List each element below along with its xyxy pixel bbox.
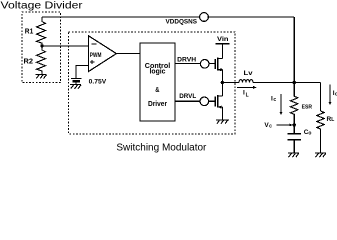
- battery V1 0.75V reference: [71, 78, 81, 84]
- svg-text:Vin: Vin: [217, 37, 229, 43]
- control logic and driver block U2: [140, 43, 175, 121]
- resistor RL: [317, 111, 324, 153]
- ground RL: [315, 153, 326, 157]
- svg-text:c: c: [273, 97, 276, 103]
- svg-text:Lv: Lv: [244, 70, 253, 77]
- wire DRVL to Q2 gate: [175, 100, 215, 102]
- svg-text:VDDQSNS: VDDQSNS: [166, 19, 198, 25]
- pin DRVH terminal: [200, 60, 209, 69]
- wire PWM plus input to reference: [76, 65, 89, 78]
- svg-text:R1: R1: [25, 29, 34, 36]
- op-amp U1 PWM comparator: [89, 36, 117, 72]
- label PWM comparator minus input: [91, 43, 96, 45]
- svg-text:logic: logic: [150, 68, 166, 75]
- ground reference V1: [70, 85, 81, 89]
- node output junction: [292, 81, 296, 85]
- node divider midpoint junction: [40, 44, 43, 47]
- svg-text:ESR: ESR: [302, 104, 312, 110]
- wire switch node to inductor: [222, 82, 239, 84]
- voltage divider enclosure box: [22, 12, 61, 83]
- current arrow IL: [237, 86, 257, 89]
- label Vc pointer arrow: [277, 124, 293, 127]
- svg-text:&: &: [155, 87, 159, 94]
- terminal VDDQSNS: [200, 13, 209, 22]
- svg-text:0.75V: 0.75V: [89, 78, 107, 85]
- svg-text:o: o: [308, 131, 311, 137]
- capacitor Co: [287, 125, 301, 153]
- wire VDDQSNS vertical drop to output node: [293, 17, 295, 83]
- ground R2: [36, 74, 47, 78]
- ground Q2 source: [216, 120, 229, 124]
- wire divider midpoint to PWM inverting input: [42, 45, 89, 47]
- switching modulator enclosure box: [69, 32, 236, 134]
- current arrow Io: [329, 85, 332, 106]
- svg-text:L: L: [331, 117, 334, 123]
- transistor Q2 low-side MOSFET: [215, 83, 222, 120]
- label PWM comparator plus input: [90, 60, 94, 64]
- current arrow Ic: [279, 94, 282, 115]
- wire inductor to output node rail: [253, 82, 321, 84]
- svg-text:PWM: PWM: [90, 53, 102, 59]
- svg-text:Switching Modulator: Switching Modulator: [116, 142, 207, 153]
- wire PWM output to control logic: [116, 53, 140, 55]
- wire output rail corner to RL: [320, 83, 322, 112]
- svg-text:Voltage Divider: Voltage Divider: [1, 1, 84, 12]
- wire DRVH to Q1 gate: [175, 63, 215, 65]
- node switch node junction: [221, 81, 224, 84]
- resistor R1: [37, 17, 46, 46]
- transistor Q1 high-side MOSFET: [215, 58, 222, 83]
- resistor R2: [37, 46, 46, 74]
- resistor ESR: [291, 83, 298, 125]
- svg-text:L: L: [246, 92, 249, 98]
- svg-text:R2: R2: [24, 59, 34, 66]
- ground Co: [288, 153, 299, 157]
- svg-text:Driver: Driver: [148, 101, 167, 108]
- wire VDDQSNS top rail: [42, 16, 294, 18]
- power Vin stub: [216, 44, 230, 59]
- svg-text:c: c: [269, 123, 272, 129]
- svg-text:DRVL: DRVL: [179, 93, 196, 100]
- node Vc junction: [293, 123, 296, 126]
- svg-text:DRVH: DRVH: [177, 56, 196, 63]
- pin DRVL terminal: [200, 97, 209, 106]
- inductor Lv: [239, 80, 253, 83]
